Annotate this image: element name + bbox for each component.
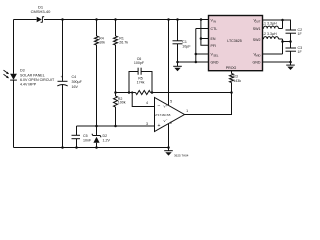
- capacitor C1 10uF: [177, 20, 179, 63]
- solar light arrows: [4, 70, 8, 77]
- svg-text:GND: GND: [211, 60, 219, 64]
- svg-text:4.4V MPP: 4.4V MPP: [20, 83, 37, 87]
- svg-text:PROG: PROG: [226, 66, 237, 70]
- ground (output caps): [290, 62, 292, 65]
- svg-text:143k: 143k: [233, 79, 241, 83]
- capacitor C4 390uF 16V: [62, 20, 64, 148]
- ground (main): [168, 148, 170, 151]
- top rail wire (VIN net): [14, 19, 209, 21]
- svg-text:MID: MID: [255, 53, 260, 57]
- svg-text:3625 TA04: 3625 TA04: [174, 154, 189, 158]
- svg-text:10µF: 10µF: [182, 45, 191, 49]
- svg-text:174k: 174k: [137, 80, 145, 84]
- svg-text:390µF: 390µF: [72, 80, 83, 84]
- svg-text:1.2V: 1.2V: [103, 139, 111, 143]
- wire comparator feedback net (y=92): [116, 92, 232, 94]
- wire comparator output: [185, 93, 232, 115]
- inductor L2 3.3uH: [264, 37, 279, 39]
- inductor L1 3.3uH: [264, 26, 279, 28]
- op-amp comparator U1 LT1716CS5: [155, 98, 185, 132]
- svg-text:SOLAR PANEL: SOLAR PANEL: [20, 73, 45, 77]
- svg-text:C4: C4: [72, 75, 77, 79]
- svg-text:L2 3.3µH: L2 3.3µH: [262, 32, 277, 36]
- diode D1 CMSH3-40: [37, 17, 42, 23]
- IC U2 LTC3625 body: [209, 16, 263, 71]
- wire rail to EN/PFI riser: [201, 20, 209, 46]
- svg-text:26.7k: 26.7k: [119, 41, 128, 45]
- supercap C3 1F: [290, 42, 292, 48]
- wire IC GND pin to C1 ground: [178, 61, 209, 63]
- svg-text:C5: C5: [83, 134, 88, 138]
- svg-text:IN: IN: [213, 19, 216, 23]
- solar panel diode D3: [10, 74, 17, 80]
- wire CTL-VSEL-GND riser: [196, 29, 209, 63]
- svg-text:100pF: 100pF: [134, 61, 145, 65]
- svg-text:4: 4: [146, 101, 148, 105]
- svg-text:1: 1: [186, 109, 188, 113]
- wire EN pin: [201, 38, 209, 40]
- node R1/R2 divider junction: [114, 91, 117, 94]
- svg-text:100k: 100k: [118, 101, 126, 105]
- svg-text:OUT: OUT: [255, 19, 261, 23]
- svg-text:+: +: [158, 123, 161, 129]
- resistor R3 143k: [230, 74, 234, 83]
- svg-text:PFI: PFI: [211, 44, 217, 48]
- svg-text:L1 3.3µH: L1 3.3µH: [262, 22, 277, 26]
- capacitor C6 100pF (parallel with R5): [129, 72, 152, 93]
- wire IC GND right pin: [263, 61, 291, 63]
- resistor R1 26.7k: [115, 20, 117, 37]
- wire VOUT net: [263, 20, 291, 30]
- svg-text:1F: 1F: [298, 32, 303, 36]
- svg-text:−: −: [166, 118, 168, 122]
- node B wire (+IN net): [77, 125, 155, 127]
- svg-text:2: 2: [170, 121, 172, 125]
- wire VMID junction row: [283, 41, 291, 43]
- svg-text:6.0V OPEN CIRCUIT: 6.0V OPEN CIRCUIT: [20, 78, 55, 82]
- wire to comparator -IN (pin 4): [132, 93, 154, 107]
- svg-text:GND: GND: [253, 60, 261, 64]
- wire comparator V+ from rail: [168, 20, 170, 106]
- svg-text:10k: 10k: [99, 41, 105, 45]
- svg-text:+: +: [61, 74, 64, 79]
- svg-text:SW2: SW2: [253, 38, 261, 42]
- svg-text:CMSH3-40: CMSH3-40: [31, 9, 52, 14]
- resistor R2 100k: [114, 96, 118, 107]
- svg-text:3: 3: [146, 122, 148, 126]
- svg-text:10nF: 10nF: [83, 139, 92, 143]
- resistor R5 174k: [136, 91, 151, 95]
- svg-text:C1: C1: [182, 40, 187, 44]
- zener diode D2 1.2V: [96, 126, 98, 148]
- wire left vertical (solar input): [13, 20, 15, 148]
- svg-text:1F: 1F: [298, 50, 303, 54]
- svg-text:16V: 16V: [72, 85, 79, 89]
- svg-text:−: −: [158, 103, 161, 109]
- wire comparator V- to ground: [168, 124, 170, 148]
- bottom ground rail: [14, 147, 169, 149]
- node: rail junction dots: [61, 18, 64, 21]
- svg-text:5: 5: [170, 100, 172, 104]
- capacitor C5 10nF: [76, 126, 78, 148]
- svg-text:LTC3625: LTC3625: [227, 39, 242, 43]
- supercap C2 1F: [286, 29, 297, 31]
- svg-text:EN: EN: [211, 37, 216, 41]
- ground (C1 / IC GND): [177, 62, 179, 66]
- svg-text:SW1: SW1: [253, 27, 261, 31]
- svg-text:D2: D2: [103, 134, 108, 138]
- svg-text:D3: D3: [20, 69, 25, 73]
- svg-text:CTL: CTL: [211, 27, 218, 31]
- wire VSEL pin: [196, 53, 209, 55]
- wire VMID riser: [263, 39, 283, 54]
- svg-text:LT1716CS5: LT1716CS5: [155, 113, 171, 117]
- resistor R4 10k: [96, 20, 98, 37]
- svg-text:SEL: SEL: [213, 53, 219, 57]
